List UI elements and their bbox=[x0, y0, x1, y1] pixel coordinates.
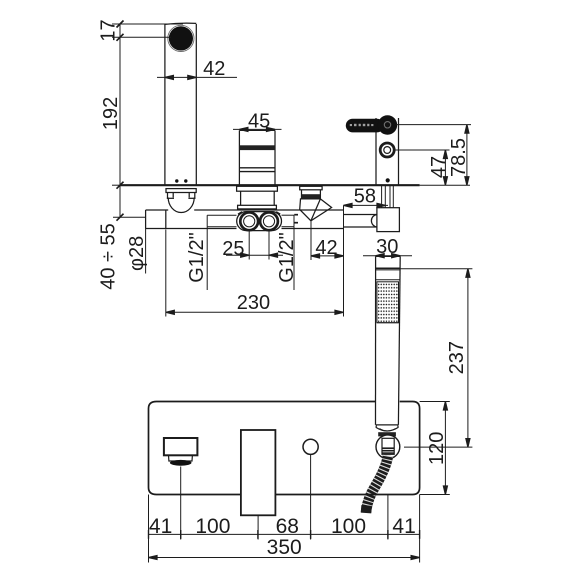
dim 230 bbox=[165, 230, 167, 317]
svg-text:42: 42 bbox=[203, 58, 225, 80]
svg-text:78.5: 78.5 bbox=[448, 138, 470, 177]
dim 30 bbox=[363, 255, 412, 257]
wand head band bbox=[376, 267, 401, 269]
G1/2 leader left bbox=[206, 227, 208, 290]
body hidden-line dashes bbox=[294, 214, 298, 216]
dim 45 bbox=[233, 128, 282, 130]
svg-text:25: 25 bbox=[222, 238, 244, 260]
svg-text:40 ÷ 55: 40 ÷ 55 bbox=[98, 223, 120, 290]
spout tube bbox=[164, 24, 166, 185]
svg-text:30: 30 bbox=[376, 236, 398, 258]
spout shank flange bbox=[166, 189, 196, 193]
deck extension line right bbox=[420, 184, 470, 186]
ball joint bbox=[376, 435, 400, 459]
svg-text:350: 350 bbox=[267, 536, 302, 559]
svg-text:58: 58 bbox=[354, 186, 376, 208]
svg-text:G1/2": G1/2" bbox=[186, 232, 208, 282]
cartridge flange below deck bbox=[237, 186, 278, 191]
dim 47 bbox=[395, 149, 450, 151]
shower wand outline bbox=[376, 255, 401, 257]
holder supply tubes bbox=[381, 185, 383, 208]
dim 25 bbox=[248, 232, 250, 260]
chain dimension line bbox=[149, 533, 420, 535]
deck tick at 192 dim bbox=[112, 184, 128, 186]
dim 192 bbox=[119, 37, 121, 185]
dim 17 bbox=[119, 24, 121, 37]
svg-text:45: 45 bbox=[248, 111, 270, 133]
svg-text:17: 17 bbox=[98, 19, 120, 41]
hose bbox=[366, 456, 388, 513]
valve body inner bracket bbox=[207, 214, 236, 216]
svg-text:42: 42 bbox=[315, 237, 337, 259]
svg-text:237: 237 bbox=[446, 341, 468, 374]
spout front view bbox=[164, 438, 198, 455]
stadium corner marks bbox=[238, 212, 242, 215]
valve body bbox=[146, 209, 169, 211]
svg-text:φ28: φ28 bbox=[126, 236, 148, 271]
dim 237 bbox=[400, 268, 472, 270]
column dot bbox=[386, 178, 390, 182]
handle front view bbox=[241, 430, 276, 515]
wand cup connector bbox=[376, 425, 398, 431]
svg-text:100: 100 bbox=[331, 515, 366, 538]
svg-text:41: 41 bbox=[392, 515, 415, 538]
svg-text:G1/2": G1/2" bbox=[276, 232, 298, 282]
svg-text:41: 41 bbox=[149, 515, 172, 538]
diverter cone bbox=[300, 199, 332, 221]
diverter collar bbox=[301, 190, 303, 199]
dim 40÷55 bbox=[119, 185, 121, 217]
outlet pipe to holder bbox=[344, 214, 377, 216]
wand texture grip bbox=[377, 282, 399, 323]
dim phi28 bbox=[145, 229, 147, 274]
diverter knob front view bbox=[303, 439, 318, 454]
spout deck screws (two dots) bbox=[175, 179, 178, 182]
dim 58 bbox=[344, 204, 389, 206]
svg-text:120: 120 bbox=[426, 432, 448, 465]
handle lever bbox=[346, 119, 384, 133]
wand nut bbox=[378, 432, 396, 436]
dim 42 top bbox=[157, 76, 237, 78]
handle column above deck bbox=[375, 118, 377, 185]
dim 350 bbox=[149, 557, 420, 559]
dim 120 bbox=[420, 401, 450, 403]
holder block below deck bbox=[377, 208, 400, 232]
spout aerator bbox=[169, 26, 193, 50]
handle ring bbox=[380, 143, 394, 157]
inlet circle left bbox=[240, 212, 258, 230]
dim 78.5 bbox=[396, 124, 471, 126]
extension lines below plate bbox=[148, 495, 150, 563]
diverter flange bbox=[300, 186, 322, 190]
plate front view bbox=[149, 402, 420, 495]
G1/2 leader right bbox=[293, 227, 295, 290]
svg-text:47: 47 bbox=[428, 156, 450, 178]
spout shank semicircle bbox=[168, 198, 194, 213]
svg-text:230: 230 bbox=[237, 292, 270, 314]
wand bottom bbox=[376, 424, 398, 426]
deck line bbox=[120, 184, 420, 186]
svg-text:68: 68 bbox=[276, 515, 299, 538]
cartridge column bbox=[238, 130, 240, 185]
svg-text:192: 192 bbox=[100, 97, 122, 130]
inlet stadium bbox=[237, 212, 282, 231]
dim 42 diverter bbox=[310, 221, 312, 260]
svg-text:100: 100 bbox=[195, 515, 230, 538]
inlet circle right bbox=[260, 212, 278, 230]
